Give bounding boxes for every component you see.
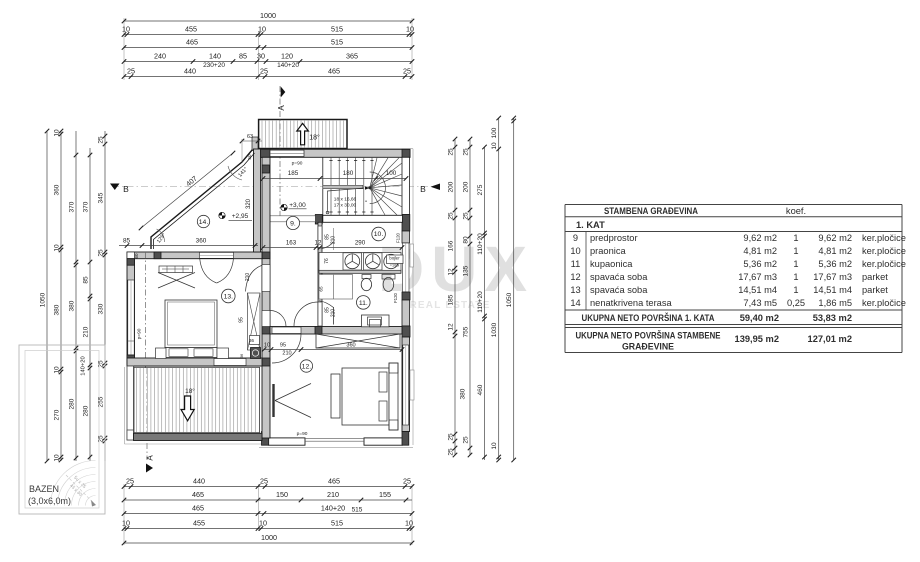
svg-text:5,36 m2: 5,36 m2 [818, 259, 852, 269]
svg-text:135: 135 [463, 265, 470, 276]
svg-text:25: 25 [403, 67, 411, 76]
svg-text:parket: parket [862, 285, 888, 295]
svg-text:9: 9 [573, 233, 578, 243]
svg-text:10: 10 [54, 366, 61, 374]
svg-text:25: 25 [260, 67, 268, 76]
svg-text:163: 163 [286, 240, 297, 247]
svg-text:140+20: 140+20 [81, 356, 87, 376]
svg-text:F120: F120 [393, 292, 398, 303]
svg-text:25: 25 [127, 67, 135, 76]
svg-text:14,51 m4: 14,51 m4 [813, 285, 852, 295]
svg-text:139,95 m2: 139,95 m2 [735, 334, 779, 344]
svg-text:465: 465 [192, 504, 204, 513]
svg-text:150: 150 [276, 490, 288, 499]
svg-text:85: 85 [83, 276, 90, 284]
svg-text:110+20: 110+20 [477, 233, 484, 255]
svg-text:1000: 1000 [260, 11, 276, 20]
svg-text:365: 365 [346, 52, 358, 61]
svg-text:166: 166 [448, 240, 455, 251]
svg-text:18 x 16,66: 18 x 16,66 [334, 197, 357, 203]
svg-text:36: 36 [239, 353, 244, 358]
svg-text:280: 280 [69, 398, 76, 409]
svg-text:12: 12 [448, 323, 455, 331]
svg-text:7,43 m5: 7,43 m5 [743, 298, 777, 308]
svg-text:25: 25 [126, 477, 134, 486]
svg-text:460: 460 [477, 384, 484, 395]
svg-text:515: 515 [331, 519, 343, 528]
svg-text:10: 10 [406, 25, 414, 34]
svg-text:+2,95: +2,95 [232, 213, 249, 220]
svg-text:p=90: p=90 [137, 328, 143, 339]
svg-text:25: 25 [260, 477, 268, 486]
svg-text:F120: F120 [396, 232, 401, 243]
svg-text:ker.pločice: ker.pločice [862, 259, 906, 269]
svg-text:345: 345 [98, 192, 105, 203]
svg-text:140+20: 140+20 [321, 504, 345, 513]
svg-text:18°: 18° [309, 134, 320, 142]
svg-text:13: 13 [570, 285, 580, 295]
svg-text:180: 180 [343, 170, 354, 177]
svg-text:predprostor: predprostor [590, 233, 638, 243]
svg-text:95: 95 [239, 317, 245, 323]
svg-text:9,62 m2: 9,62 m2 [743, 233, 777, 243]
svg-text:25: 25 [98, 249, 105, 257]
svg-text:1,86 m5: 1,86 m5 [818, 298, 852, 308]
svg-text:210: 210 [245, 273, 251, 282]
svg-text:11: 11 [571, 259, 581, 269]
svg-text:ker.pločice: ker.pločice [862, 298, 906, 308]
svg-text:14: 14 [570, 298, 580, 308]
svg-text:●: ● [365, 199, 367, 203]
svg-text:30: 30 [257, 52, 265, 61]
svg-text:455: 455 [193, 519, 205, 528]
svg-text:85: 85 [239, 52, 247, 61]
svg-text:9,62 m2: 9,62 m2 [818, 233, 852, 243]
svg-text:25: 25 [448, 433, 455, 441]
svg-text:18°: 18° [185, 387, 195, 395]
svg-text:bojler: bojler [389, 256, 400, 261]
svg-text:80: 80 [463, 236, 470, 244]
svg-text:200: 200 [463, 181, 470, 192]
svg-text:290: 290 [355, 240, 366, 247]
svg-text:1: 1 [793, 272, 798, 282]
svg-text:A: A [277, 105, 286, 111]
svg-text:255: 255 [98, 396, 105, 407]
svg-text:BAZEN: BAZEN [29, 484, 59, 494]
svg-text:parket: parket [862, 272, 888, 282]
svg-text:=100l: =100l [390, 264, 400, 268]
svg-text:380: 380 [460, 388, 467, 399]
svg-text:140: 140 [209, 52, 221, 61]
svg-text:10: 10 [259, 519, 267, 528]
svg-text:60: 60 [134, 253, 139, 259]
svg-text:370: 370 [83, 201, 90, 212]
svg-text:515: 515 [331, 25, 343, 34]
svg-text:p=90: p=90 [292, 161, 303, 167]
svg-text:36: 36 [249, 338, 255, 343]
svg-text:1: 1 [793, 246, 798, 256]
svg-text:koef.: koef. [786, 206, 806, 216]
svg-text:(3,0x6,0m): (3,0x6,0m) [28, 496, 71, 506]
svg-text:25: 25 [98, 136, 105, 144]
svg-text:10: 10 [405, 519, 413, 528]
svg-text:A: A [146, 455, 155, 461]
svg-text:17 x 30,00: 17 x 30,00 [334, 203, 357, 209]
svg-text:spavaća soba: spavaća soba [590, 285, 648, 295]
svg-text:1. KAT: 1. KAT [576, 220, 605, 230]
svg-text:25: 25 [463, 148, 470, 156]
svg-text:10: 10 [570, 246, 580, 256]
svg-text:210: 210 [282, 351, 291, 357]
svg-text:380: 380 [69, 300, 76, 311]
svg-text:10: 10 [122, 519, 130, 528]
svg-text:10.: 10. [374, 231, 384, 238]
svg-text:65: 65 [319, 286, 324, 292]
svg-text:440: 440 [184, 67, 196, 76]
svg-text:210: 210 [83, 326, 90, 337]
svg-text:13.: 13. [224, 294, 234, 301]
svg-text:12: 12 [448, 268, 455, 276]
svg-text:360: 360 [196, 237, 207, 244]
svg-text:STAMBENA GRAĐEVINA: STAMBENA GRAĐEVINA [604, 206, 698, 216]
svg-text:210: 210 [327, 490, 339, 499]
svg-text:320: 320 [246, 198, 252, 209]
svg-text:455: 455 [185, 25, 197, 34]
svg-text:465: 465 [192, 490, 204, 499]
svg-text:85: 85 [123, 237, 131, 244]
svg-text:53,83 m2: 53,83 m2 [813, 313, 852, 323]
svg-text:17,67 m3: 17,67 m3 [813, 272, 852, 282]
svg-text:12.: 12. [302, 364, 312, 371]
svg-text:10: 10 [258, 25, 266, 34]
svg-text:1050: 1050 [40, 292, 47, 307]
svg-text:10: 10 [54, 454, 61, 462]
svg-text:B: B [123, 184, 129, 194]
svg-text:755: 755 [463, 326, 470, 337]
svg-text:spavaća soba: spavaća soba [590, 272, 648, 282]
svg-text:1000: 1000 [261, 533, 277, 542]
svg-text:1: 1 [793, 233, 798, 243]
svg-text:59,40 m2: 59,40 m2 [740, 313, 779, 323]
svg-text:p=90: p=90 [297, 431, 308, 437]
svg-text:1: 1 [793, 259, 798, 269]
svg-text:10: 10 [54, 244, 61, 252]
svg-text:330: 330 [98, 303, 105, 314]
svg-text:14.: 14. [199, 219, 209, 226]
svg-text:127,01 m2: 127,01 m2 [808, 334, 852, 344]
svg-text:ker.pločice: ker.pločice [862, 233, 906, 243]
svg-text:200: 200 [448, 181, 455, 192]
svg-text:465: 465 [328, 67, 340, 76]
svg-text:1050: 1050 [506, 292, 513, 307]
svg-text:1: 1 [793, 285, 798, 295]
svg-text:185: 185 [288, 170, 299, 177]
svg-text:10: 10 [122, 25, 130, 34]
svg-text:140+20: 140+20 [277, 62, 299, 69]
svg-text:14,51 m4: 14,51 m4 [738, 285, 777, 295]
svg-text:515: 515 [352, 507, 363, 514]
svg-text:515: 515 [331, 38, 343, 47]
svg-text:5,36 m2: 5,36 m2 [743, 259, 777, 269]
svg-text:100: 100 [491, 127, 498, 138]
svg-text:kupaonica: kupaonica [590, 259, 633, 269]
svg-text:240: 240 [154, 52, 166, 61]
svg-text:4,81 m2: 4,81 m2 [818, 246, 852, 256]
svg-text:360: 360 [346, 343, 355, 349]
svg-text:230+20: 230+20 [203, 62, 225, 69]
svg-text:370: 370 [69, 201, 76, 212]
svg-text:280: 280 [83, 405, 90, 416]
svg-text:25: 25 [403, 477, 411, 486]
svg-text:+3,00: +3,00 [289, 202, 306, 209]
svg-text:9.: 9. [290, 221, 296, 228]
svg-text:25: 25 [463, 212, 470, 220]
svg-text:120: 120 [281, 52, 293, 61]
svg-text:95: 95 [280, 343, 286, 349]
svg-text:25: 25 [98, 435, 105, 443]
svg-text:185: 185 [448, 294, 455, 305]
svg-text:4,81 m2: 4,81 m2 [743, 246, 777, 256]
svg-text:25: 25 [448, 448, 455, 456]
svg-text:275: 275 [477, 184, 484, 195]
svg-text:UKUPNA NETO POVRŠINA 1. KATA: UKUPNA NETO POVRŠINA 1. KATA [582, 312, 715, 323]
svg-text:25: 25 [98, 360, 105, 368]
svg-text:1030: 1030 [491, 322, 498, 337]
svg-text:B: B [420, 184, 426, 194]
svg-text:25: 25 [448, 148, 455, 156]
svg-text:GRAĐEVINE: GRAĐEVINE [622, 342, 674, 352]
svg-text:UKUPNA NETO POVRŠINA STAMBENE: UKUPNA NETO POVRŠINA STAMBENE [576, 330, 721, 341]
svg-text:440: 440 [193, 477, 205, 486]
svg-text:nenatkrivena terasa: nenatkrivena terasa [590, 298, 672, 308]
svg-text:155: 155 [379, 490, 391, 499]
svg-text:380: 380 [54, 304, 61, 315]
svg-text:10: 10 [54, 129, 61, 137]
svg-text:25: 25 [448, 212, 455, 220]
svg-text:10: 10 [491, 442, 498, 450]
svg-text:ker.pločice: ker.pločice [862, 246, 906, 256]
svg-text:110+20: 110+20 [477, 291, 484, 313]
svg-text:10: 10 [491, 142, 498, 150]
svg-text:25: 25 [463, 436, 470, 444]
svg-text:76: 76 [324, 258, 330, 264]
svg-text:270: 270 [54, 409, 61, 420]
svg-text:100: 100 [386, 170, 397, 177]
svg-text:0,25: 0,25 [787, 298, 805, 308]
svg-text:63: 63 [247, 134, 253, 140]
svg-text:12: 12 [570, 272, 580, 282]
svg-text:17,67 m3: 17,67 m3 [738, 272, 777, 282]
svg-text:465: 465 [186, 38, 198, 47]
svg-text:465: 465 [328, 477, 340, 486]
svg-text:10: 10 [264, 343, 270, 349]
svg-text:11.: 11. [359, 300, 368, 307]
svg-text:360: 360 [54, 184, 61, 195]
svg-text:12: 12 [315, 240, 322, 247]
svg-text:praonica: praonica [590, 246, 626, 256]
